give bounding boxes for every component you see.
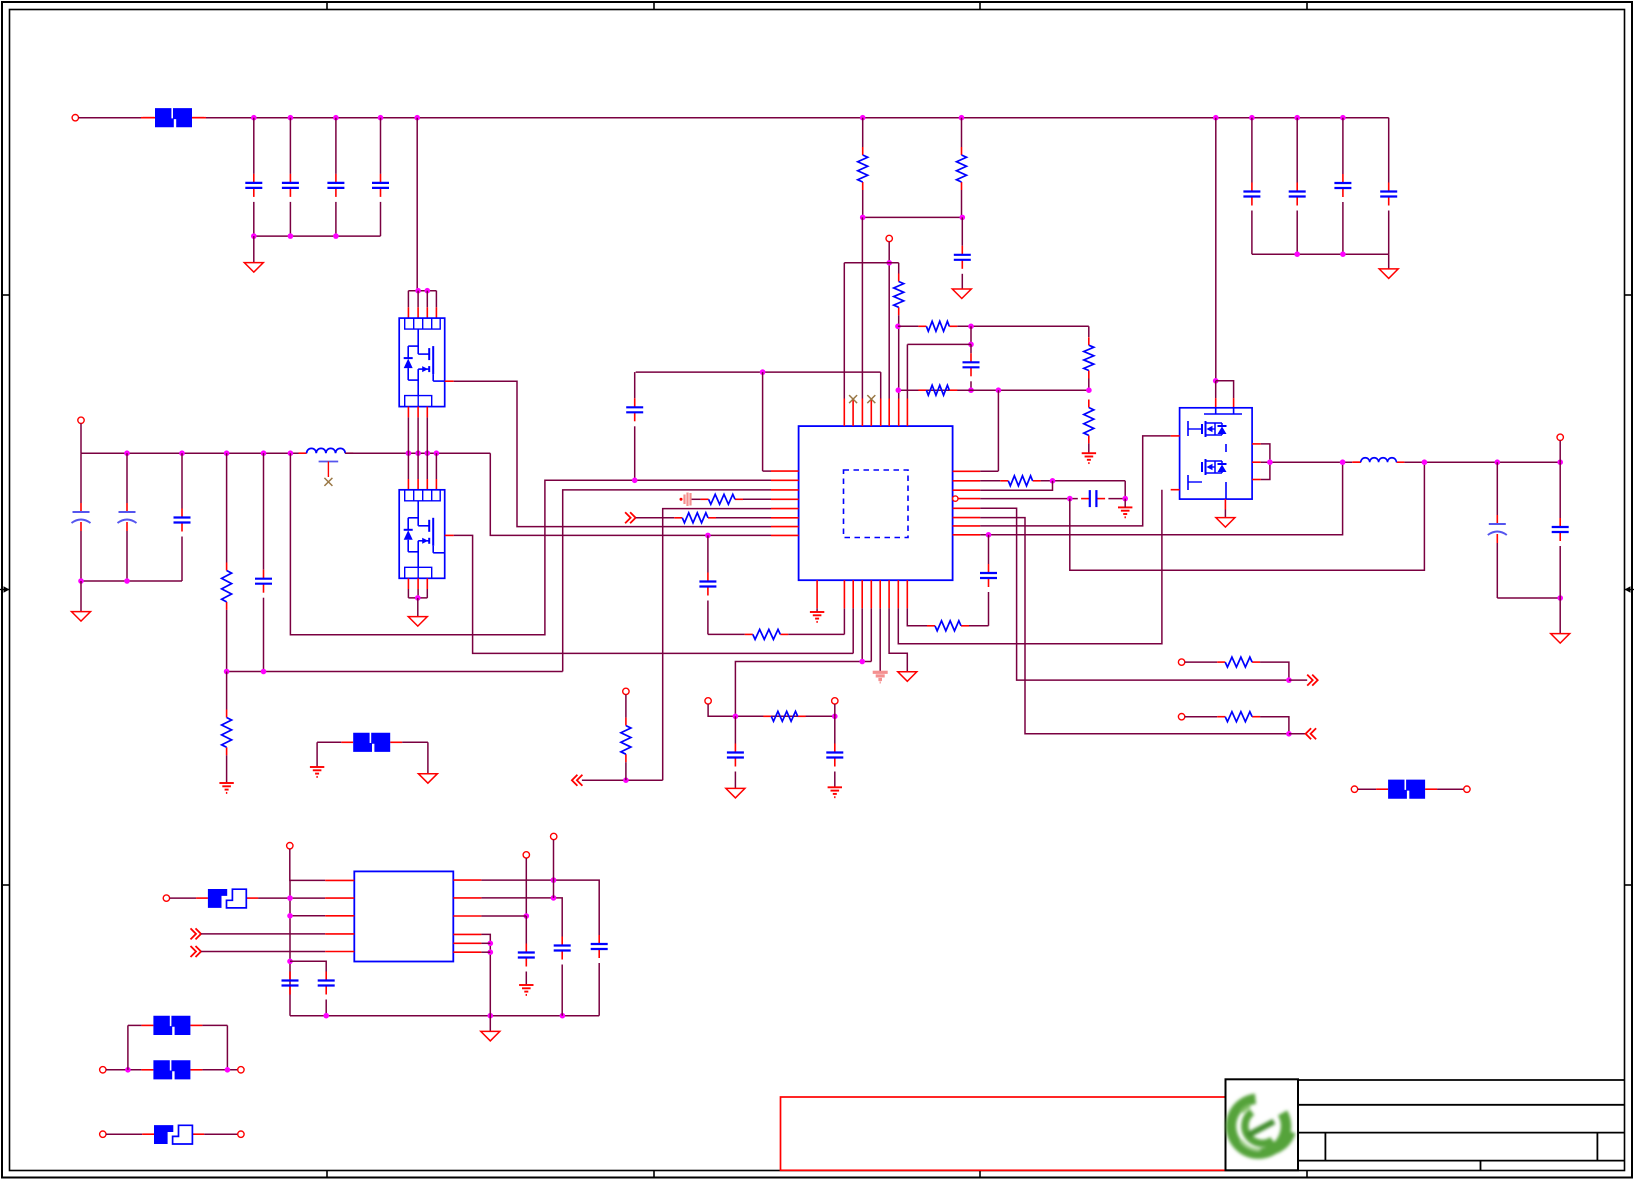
wire q1 bot — [407, 417, 409, 453]
wire c7 dn — [1342, 202, 1344, 254]
wire row6-left b — [716, 517, 771, 519]
junction bp a — [125, 1067, 131, 1073]
wire gnd7 stem — [417, 598, 419, 617]
junction rail 10 — [1294, 115, 1300, 121]
wire q2 bot — [426, 589, 428, 598]
pin U2 left 1 — [325, 879, 354, 881]
wire fb2 lstem — [316, 742, 318, 767]
pin U1 left 6 — [771, 517, 799, 519]
wire u2 r456 — [481, 934, 490, 1031]
capacitor C9 — [954, 246, 971, 269]
capacitor C16 — [699, 573, 716, 596]
wire r9 up — [226, 672, 228, 710]
pin U1 right 5 — [953, 507, 981, 509]
wire pin862 — [861, 608, 863, 661]
pin stub q2 bottom — [426, 578, 428, 589]
junction n217b — [960, 215, 966, 221]
junction vo a — [1422, 459, 1428, 465]
wire q1 top bus — [408, 290, 436, 292]
junction vo b — [1495, 459, 1501, 465]
wire sw — [1261, 461, 1353, 463]
pin stub q2 bottom — [417, 578, 419, 589]
border tick top 1 — [326, 2, 328, 10]
pin U1 right 4 — [953, 496, 981, 501]
capacitor C18 — [826, 744, 843, 767]
wire r-row3 — [980, 481, 1052, 490]
capacitor C15 — [255, 570, 272, 593]
resistor R11 — [701, 494, 743, 504]
ground GND2 — [1379, 269, 1398, 279]
wire fb5 l — [1358, 788, 1376, 790]
pin U1 bottom 6 — [879, 580, 881, 608]
wire gnd1 stem — [253, 236, 255, 263]
wire c3 up — [335, 118, 337, 174]
wire pin898 — [898, 490, 1162, 644]
junction rail 2 — [288, 115, 294, 121]
wire net634a — [708, 633, 745, 635]
wire c14 dn — [181, 537, 183, 582]
pin U1 top 7 — [898, 399, 900, 427]
junction q2bb — [415, 595, 421, 601]
wire q2 gate — [454, 535, 854, 653]
pin stub q2 top — [417, 479, 419, 490]
wire rail2b — [345, 452, 490, 454]
wire v998 — [997, 390, 999, 471]
offpage connector CHV6 — [191, 946, 202, 957]
wire p6 — [834, 704, 836, 716]
pin stub q1 bottom — [426, 407, 428, 418]
wire v844b — [843, 608, 845, 634]
offpage connector CHV3 — [1307, 675, 1318, 686]
pin U1 left 5 — [771, 508, 799, 510]
wire q2 bot — [417, 589, 419, 598]
capacitor C25 — [591, 935, 608, 958]
pin U1 right 2 — [953, 480, 981, 482]
pin U2 left 4 — [325, 933, 354, 935]
IC U2 — [354, 871, 453, 961]
capacitor C23 — [318, 972, 335, 995]
wire q1 gate — [454, 381, 771, 526]
wire p7 — [1185, 661, 1217, 663]
wire q1 bot — [426, 417, 428, 453]
wire chv3 — [1289, 679, 1307, 681]
wire c21 dn — [1496, 543, 1498, 598]
resistor R1 — [858, 147, 868, 190]
wire q1 feed — [416, 118, 418, 291]
junction n498b — [1122, 496, 1128, 502]
wire c4 dn — [380, 202, 382, 236]
wire p2 down — [888, 242, 890, 399]
wire v844 — [843, 263, 845, 399]
wire p13 — [525, 858, 527, 916]
resistor R14 — [927, 621, 969, 631]
border tick left 1 — [2, 294, 10, 296]
junction sw b — [1340, 459, 1346, 465]
title block logo box — [1226, 1079, 1299, 1170]
wire row3-left — [563, 490, 771, 672]
wire q2 top — [417, 453, 419, 479]
transistor Q2 — [399, 490, 445, 579]
pin stub q3 g2 — [1171, 489, 1180, 491]
junction u2 k — [488, 949, 494, 955]
resistor R12 — [674, 513, 716, 523]
junction rail2 2 — [179, 450, 185, 456]
wire net671 — [227, 671, 563, 673]
border tick bottom 2 — [653, 1171, 655, 1178]
capacitor C6 — [1289, 183, 1306, 206]
wire q1 pin — [435, 291, 437, 308]
wire net780 — [582, 779, 663, 781]
junction u2 i — [524, 913, 530, 919]
wire net262 — [844, 262, 898, 264]
wire left cap bus — [81, 580, 182, 582]
resistor R2 — [957, 147, 967, 190]
pin stub q1 top — [407, 307, 409, 318]
wire bp up2 — [226, 1025, 228, 1069]
junction n480b — [1050, 478, 1056, 484]
pin U2 right 1 — [453, 879, 481, 881]
ground GND15 — [310, 767, 324, 777]
pin stub q3 r1 — [1252, 443, 1261, 445]
junction rail2 4 — [261, 450, 267, 456]
terminal P15 — [238, 1067, 244, 1073]
wire net390 — [898, 389, 1089, 391]
wire r-row5 — [980, 508, 1289, 680]
wire q3 drain jog — [1261, 444, 1270, 480]
junction bus1 c — [333, 233, 339, 239]
junction bus1 a — [251, 233, 257, 239]
junction rail2 9 — [434, 450, 440, 456]
terminal P7 — [1178, 659, 1184, 665]
capacitor C14 — [174, 509, 191, 532]
wire u2 capjog — [290, 961, 326, 971]
wire vin rail — [206, 117, 1389, 119]
wire jp2 l — [106, 1133, 142, 1135]
title block line h1 — [1298, 1079, 1625, 1081]
wire c13 up — [126, 453, 128, 503]
border tick top 3 — [979, 2, 981, 10]
junction n390d — [1086, 387, 1092, 393]
capacitor C8 — [1380, 183, 1397, 206]
junction rail 5 — [414, 115, 420, 121]
junction n372 — [760, 369, 766, 375]
pin stub q3 g1 — [1171, 435, 1180, 437]
wire q2 top — [435, 453, 437, 479]
pin U1 left 3 — [771, 489, 799, 491]
wire r13 dn — [625, 762, 627, 780]
wire u2 row4 — [201, 933, 325, 935]
wire net634b — [788, 633, 844, 635]
ground GND12 — [1118, 507, 1132, 517]
wire q1 bot — [417, 417, 419, 453]
junction rail 9 — [1249, 115, 1255, 121]
pin U1 bottom 9 — [906, 580, 908, 608]
terminal P8 — [1178, 714, 1184, 720]
junction vo c — [1557, 459, 1563, 465]
inductor L1 — [299, 448, 354, 453]
wire c8 up — [1388, 118, 1390, 183]
power flag FLG1 — [680, 493, 691, 507]
testpoint bar — [319, 461, 339, 463]
wire net661 — [735, 662, 871, 717]
ferrite bead FB1 — [143, 108, 204, 127]
junction q1tb b — [425, 288, 431, 294]
wire c1 dn — [253, 202, 255, 236]
wire q2 bot bus — [408, 597, 427, 599]
IC U1 — [799, 426, 953, 580]
resistor R17 — [1217, 657, 1260, 667]
junction rail 11 — [1340, 115, 1346, 121]
junction u2 b — [287, 913, 293, 919]
ground GND13 — [1216, 518, 1235, 528]
resistor R5 — [918, 385, 957, 395]
wire net344 — [907, 343, 971, 345]
wire vin a — [79, 117, 142, 119]
junction rail 1 — [251, 115, 257, 121]
capacitor C20 — [980, 564, 997, 587]
junction rail 7 — [959, 115, 965, 121]
wire r-row2b — [1041, 480, 1126, 482]
ferrite bead FB5 — [1376, 780, 1437, 799]
ferrite bead FB3 — [141, 1016, 202, 1035]
pin U1 top 3 — [861, 399, 863, 427]
wire c22 up — [1559, 462, 1561, 518]
wire q2 top — [407, 453, 409, 479]
pin U1 top 6 — [888, 399, 890, 427]
wire c7 up — [1342, 118, 1344, 174]
wire fb2 leftb — [317, 741, 341, 743]
resistor R3 — [894, 274, 904, 316]
wire v634b — [634, 426, 636, 480]
wire v880 — [880, 372, 882, 398]
wire p8 — [1185, 716, 1217, 718]
junction bus2 b — [1340, 251, 1346, 257]
junction u2 h — [551, 895, 557, 901]
resistor R9 — [222, 710, 232, 756]
junction sw a — [1267, 459, 1273, 465]
wire v971a — [970, 326, 972, 344]
ground GND16 — [418, 774, 437, 784]
wire bp a — [106, 1069, 141, 1071]
no-connect NC2 — [867, 395, 875, 403]
junction n390a — [968, 387, 974, 393]
ground GND10 — [726, 788, 745, 798]
title block right edge — [1297, 1080, 1299, 1171]
junction rail2 6 — [406, 450, 412, 456]
title block line v3 — [1480, 1161, 1482, 1171]
wire net625 — [969, 625, 989, 627]
wire bp top l — [128, 1024, 141, 1026]
capacitor C27 — [518, 944, 535, 967]
wire c27 up — [525, 916, 527, 944]
junction n217a — [860, 215, 866, 221]
ground GND6 — [219, 783, 233, 793]
pin stub q2 top — [435, 479, 437, 490]
wire c9 dn — [961, 274, 963, 289]
wire c17 dn — [734, 772, 736, 789]
wire r8 up — [226, 453, 228, 562]
pin stub q3 r2 — [1252, 461, 1261, 463]
wire c16 up — [707, 535, 709, 572]
resistor R7 — [1084, 400, 1094, 444]
pin stub q2 gate — [445, 534, 454, 536]
pin U2 right 5 — [453, 942, 481, 944]
wire c15 dn — [263, 598, 265, 672]
junction n380 — [1213, 378, 1219, 384]
wire r-row2 — [980, 480, 1000, 482]
wire net326b — [957, 325, 1089, 327]
ground GND18 — [481, 1031, 500, 1041]
pin U1 top 2 — [852, 399, 854, 427]
terminal P12 — [551, 833, 557, 839]
pin U2 left 2 — [325, 897, 354, 899]
capacitor C2 — [282, 174, 299, 197]
border tick bottom 3 — [979, 1171, 981, 1178]
border tick bottom 4 — [1306, 1171, 1308, 1178]
pin U1 left 1 — [771, 470, 799, 472]
wire c6 up — [1296, 118, 1298, 183]
wire q3 feed — [1215, 118, 1217, 381]
pin U1 bottom 2 — [843, 580, 845, 608]
logo — [1231, 1099, 1291, 1154]
wire r-row2c — [1124, 481, 1126, 499]
pin stub FB1 left — [141, 117, 154, 119]
title block line h4 — [1298, 1160, 1625, 1162]
ground GND14 — [1551, 634, 1570, 644]
capacitor C3 — [327, 174, 344, 197]
junction bus1 b — [288, 233, 294, 239]
wire rail2a — [81, 452, 307, 454]
wire p4 down — [625, 695, 627, 718]
wire p7b — [1260, 662, 1289, 680]
pin U2 right 3 — [453, 915, 481, 917]
terminal P5 — [705, 698, 711, 704]
pin U1 top 4 — [870, 399, 872, 427]
wire v898a — [898, 263, 900, 274]
wire c6 dn — [1296, 211, 1298, 255]
capacitor C12 — [72, 503, 91, 531]
wire v862 down — [861, 217, 863, 398]
pin U2 right 4 — [453, 933, 481, 935]
capacitor C4 — [372, 174, 389, 197]
capacitor C26 — [554, 937, 571, 960]
junction n716a — [733, 714, 739, 720]
wire net372 — [636, 371, 881, 373]
ferrite bead FB4 — [141, 1060, 202, 1079]
wire c20 up — [988, 535, 990, 564]
wire c21 up — [1496, 462, 1498, 515]
wire c15 up — [263, 453, 265, 570]
wire r2 bot — [961, 190, 963, 217]
pin U2 left 5 — [325, 951, 354, 953]
capacitor C11 — [626, 398, 643, 421]
wire vout — [1404, 461, 1560, 463]
wire r9 dn — [226, 755, 228, 783]
junction n680 — [1286, 677, 1292, 683]
wire u2 vert — [289, 880, 291, 1015]
junction n344 — [968, 342, 974, 348]
pin U1 bottom 3 — [852, 580, 854, 608]
junction n480 — [632, 478, 638, 484]
wire bp top r — [202, 1024, 227, 1026]
pin U1 left 7 — [771, 526, 799, 528]
wire r1 bot — [862, 190, 864, 217]
terminal P14 — [100, 1067, 106, 1073]
pin U1 right 1 — [953, 470, 981, 472]
pin U1 left 2 — [771, 479, 799, 481]
wire c26 dn — [561, 965, 563, 1016]
junction u2 d — [323, 1013, 329, 1019]
transistor Q3 — [1180, 408, 1253, 499]
wire fb2 rstem — [427, 742, 429, 773]
power flag FLG2 — [873, 672, 888, 682]
wire u2 r5 — [481, 942, 490, 944]
wire c2 dn — [289, 202, 291, 236]
junction q1tb a — [415, 288, 421, 294]
wire pin880 — [879, 608, 881, 671]
capacitor C1 — [245, 174, 262, 197]
junction n671a — [224, 669, 230, 675]
terminal P17 — [238, 1131, 244, 1137]
wire r2 top — [961, 118, 963, 147]
wire q1 pin — [407, 291, 409, 308]
wire pin871 — [870, 608, 872, 661]
terminal P11 — [163, 895, 169, 901]
wire row4-left b — [743, 498, 771, 500]
wire p3 down — [80, 424, 82, 454]
junction n326a — [895, 324, 901, 330]
terminal P4 — [623, 688, 629, 694]
junction n598 — [1557, 595, 1563, 601]
wire u2 r3 — [481, 915, 526, 917]
junction rail 3 — [333, 115, 339, 121]
ground GND3 — [952, 289, 971, 299]
pin U2 left 3 — [325, 915, 354, 917]
terminal P16 — [100, 1131, 106, 1137]
junction u2 a — [287, 895, 293, 901]
border tick right 1 — [1625, 294, 1633, 296]
wire q1 pin — [417, 291, 419, 308]
wire u2 row5 — [201, 951, 325, 953]
junction u2 f — [560, 1013, 566, 1019]
resistor R15 — [763, 711, 805, 721]
wire net326a — [898, 325, 919, 327]
wire pin889 — [889, 608, 907, 672]
wire c13 dn — [126, 531, 128, 581]
resistor R13 — [621, 718, 631, 763]
pin stub q3 b — [1224, 499, 1226, 509]
wire v907 — [906, 344, 908, 398]
offpage connector CHV2 — [572, 775, 583, 786]
terminal P2 — [886, 235, 892, 241]
resistor R4 — [918, 321, 957, 331]
terminal P6 — [832, 698, 838, 704]
pin U1 top 8 — [906, 399, 908, 427]
wire r8 dn — [226, 610, 228, 672]
no-connect NC1 — [849, 395, 857, 403]
title block red box — [781, 1097, 1226, 1170]
wire c27 dn — [525, 972, 527, 986]
capacitor C21 — [1488, 515, 1507, 543]
pin stub q1 bottom — [417, 407, 419, 418]
junction rail2 8 — [425, 450, 431, 456]
pin U1 right 3 — [953, 489, 981, 491]
junction bp b — [225, 1067, 231, 1073]
pin U1 right 8 — [953, 534, 981, 536]
ground GND5 — [72, 612, 91, 622]
wire rail-row8 — [490, 453, 771, 535]
wire u2 row3 — [290, 915, 325, 917]
